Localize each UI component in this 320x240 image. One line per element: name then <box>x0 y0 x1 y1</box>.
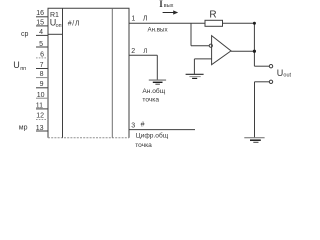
svg-text:Цифр.общ: Цифр.общ <box>136 132 169 140</box>
svg-text:out: out <box>283 73 291 79</box>
svg-text:15: 15 <box>36 20 44 27</box>
svg-text:9: 9 <box>40 81 44 88</box>
svg-text:13: 13 <box>36 125 44 132</box>
svg-text:Л: Л <box>143 48 147 55</box>
svg-text:оп: оп <box>56 23 62 29</box>
svg-text:U: U <box>13 60 19 70</box>
svg-text:2: 2 <box>131 48 135 55</box>
svg-text:3: 3 <box>131 122 135 129</box>
svg-text:вых: вых <box>164 3 174 9</box>
svg-text:7: 7 <box>40 62 44 69</box>
svg-text:6: 6 <box>40 52 44 59</box>
svg-text:16: 16 <box>36 10 44 17</box>
svg-text:пп: пп <box>20 66 26 72</box>
svg-text:11: 11 <box>36 102 43 109</box>
svg-text:Ан.вых: Ан.вых <box>148 27 169 34</box>
svg-text:Ан.общ: Ан.общ <box>142 87 165 95</box>
svg-text:точка: точка <box>142 96 159 103</box>
svg-text:8: 8 <box>40 71 44 78</box>
svg-text:10: 10 <box>37 92 45 99</box>
svg-text:R: R <box>209 9 216 20</box>
svg-text:1: 1 <box>131 16 135 23</box>
svg-text:12: 12 <box>36 113 44 120</box>
svg-text:точка: точка <box>135 142 152 149</box>
svg-text:Л: Л <box>143 16 148 23</box>
svg-text:5: 5 <box>39 41 43 48</box>
svg-text:#/Л: #/Л <box>68 21 80 28</box>
svg-text:#: # <box>141 122 145 129</box>
svg-text:4: 4 <box>39 29 43 36</box>
svg-text:U: U <box>277 68 284 78</box>
svg-text:ср: ср <box>21 31 29 38</box>
svg-text:мр: мр <box>19 125 28 132</box>
svg-text:I: I <box>159 0 163 9</box>
